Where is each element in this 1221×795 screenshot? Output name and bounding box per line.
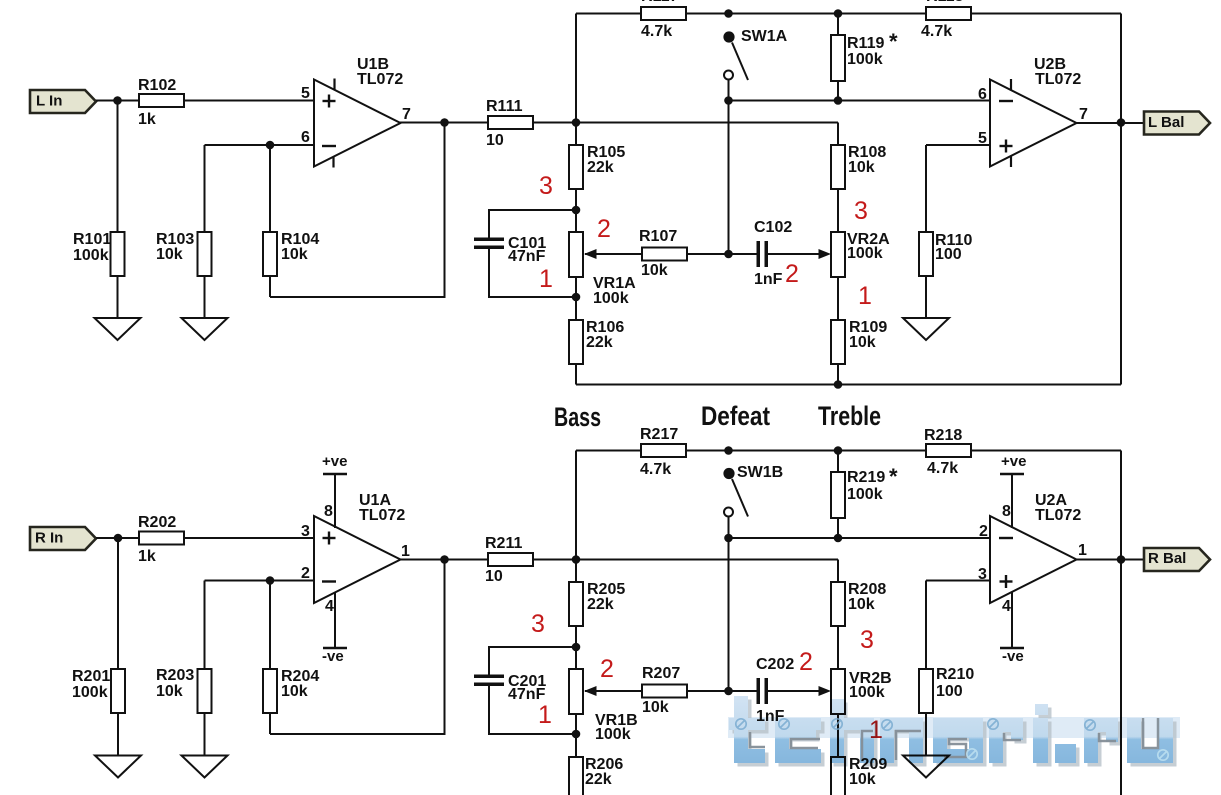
resistor R105 bbox=[569, 145, 583, 189]
svg-text:L In: L In bbox=[36, 93, 62, 110]
resistor R218 bbox=[926, 444, 971, 457]
svg-text:10k: 10k bbox=[849, 771, 876, 788]
resistor R217 bbox=[641, 444, 686, 457]
watermark marks bbox=[736, 719, 1168, 760]
resistor R102 bbox=[139, 94, 184, 107]
svg-text:100k: 100k bbox=[593, 290, 629, 307]
svg-text:1k: 1k bbox=[138, 111, 156, 128]
svg-text:3: 3 bbox=[301, 523, 310, 540]
node L Bal bbox=[1117, 118, 1126, 127]
resistor R103 bbox=[204, 145, 206, 318]
svg-text:R In: R In bbox=[35, 530, 63, 547]
svg-text:*: * bbox=[889, 29, 898, 54]
wire left tone rail bbox=[575, 14, 577, 385]
svg-text:2: 2 bbox=[979, 523, 988, 540]
svg-text:1: 1 bbox=[539, 265, 553, 293]
resistor R208 bbox=[831, 582, 845, 626]
svg-text:R203: R203 bbox=[156, 667, 194, 684]
switch SW1B bbox=[723, 468, 734, 479]
svg-text:TL072: TL072 bbox=[359, 507, 405, 524]
wire U2A pin 3 bbox=[926, 580, 990, 582]
node SW1B bottom bbox=[724, 534, 733, 543]
node R219 top bbox=[834, 446, 843, 455]
svg-text:22k: 22k bbox=[587, 596, 614, 613]
svg-text:2: 2 bbox=[597, 215, 611, 243]
svg-text:R218: R218 bbox=[924, 427, 962, 444]
svg-text:R219: R219 bbox=[847, 469, 885, 486]
svg-text:R202: R202 bbox=[138, 514, 176, 531]
resistor R119 bbox=[837, 14, 839, 101]
node bottom rail treble bbox=[834, 380, 843, 389]
node bass bottom R bbox=[572, 730, 581, 739]
resistor R203 bbox=[204, 581, 206, 756]
svg-text:10k: 10k bbox=[848, 596, 875, 613]
resistor R210 bbox=[925, 581, 927, 756]
svg-text:8: 8 bbox=[1002, 503, 1011, 520]
svg-text:4: 4 bbox=[1002, 598, 1011, 615]
wire main rail R bbox=[576, 559, 838, 561]
wire U2A output bbox=[1077, 559, 1145, 561]
wire feedback U1A bbox=[270, 560, 445, 735]
resistor R219 bbox=[837, 451, 839, 539]
svg-text:2: 2 bbox=[785, 260, 799, 288]
resistor R207 bbox=[642, 685, 687, 698]
svg-text:10k: 10k bbox=[281, 683, 308, 700]
svg-text:10k: 10k bbox=[281, 246, 308, 263]
wire U1A output bbox=[400, 559, 576, 561]
svg-text:SW1B: SW1B bbox=[737, 464, 783, 481]
svg-text:R102: R102 bbox=[138, 77, 176, 94]
switch SW1A bbox=[723, 31, 734, 42]
svg-text:R107: R107 bbox=[639, 228, 677, 245]
node pin6 junction bbox=[266, 141, 275, 150]
svg-text:4.7k: 4.7k bbox=[927, 460, 958, 477]
wire U1A pin 8 +ve bbox=[334, 474, 336, 528]
resistor R111 bbox=[488, 116, 533, 129]
resistor R205 bbox=[569, 582, 583, 626]
op-amp U1B bbox=[314, 80, 401, 167]
resistor R206 bbox=[569, 757, 583, 795]
svg-text:TL072: TL072 bbox=[1035, 71, 1081, 88]
wire left tone rail R bbox=[575, 451, 577, 795]
svg-text:1nF: 1nF bbox=[754, 271, 783, 288]
port R In bbox=[30, 527, 96, 550]
svg-text:R207: R207 bbox=[642, 665, 680, 682]
svg-text:Treble: Treble bbox=[818, 401, 881, 431]
svg-text:100k: 100k bbox=[72, 684, 108, 701]
svg-text:100k: 100k bbox=[73, 247, 109, 264]
capacitor C201 bbox=[489, 647, 576, 676]
pot VR2B bbox=[831, 669, 845, 714]
svg-text:R210: R210 bbox=[936, 666, 974, 683]
svg-text:R211: R211 bbox=[485, 535, 522, 552]
svg-text:-ve: -ve bbox=[1002, 648, 1024, 665]
node tone input bbox=[572, 118, 581, 127]
svg-text:10k: 10k bbox=[156, 246, 183, 263]
wire U2A pin 4 -ve bbox=[1011, 592, 1013, 648]
port R Bal bbox=[1144, 548, 1210, 571]
svg-text:3: 3 bbox=[539, 172, 553, 200]
resistor R211 bbox=[488, 553, 533, 566]
svg-text:22k: 22k bbox=[586, 334, 613, 351]
svg-text:C202: C202 bbox=[756, 656, 794, 673]
node R Bal bbox=[1117, 555, 1126, 564]
svg-text:7: 7 bbox=[402, 106, 411, 123]
node U1B output bbox=[440, 118, 449, 127]
wire defeat vertical bbox=[728, 101, 730, 255]
svg-text:3: 3 bbox=[860, 626, 874, 654]
svg-text:4.7k: 4.7k bbox=[640, 461, 671, 478]
svg-text:L Bal: L Bal bbox=[1148, 114, 1184, 131]
op-amp U2B bbox=[990, 80, 1077, 167]
node defeat mid bbox=[724, 250, 733, 259]
wire VR1B wiper bbox=[585, 690, 729, 692]
ground R210 bbox=[903, 756, 949, 778]
resistor R101 bbox=[117, 101, 119, 319]
node R In junction bbox=[114, 534, 123, 543]
svg-text:+ve: +ve bbox=[322, 453, 347, 470]
wire VR1A wiper bbox=[585, 253, 729, 255]
resistor R106 bbox=[569, 320, 583, 364]
wire feedback U1B bbox=[270, 123, 445, 298]
svg-text:C102: C102 bbox=[754, 219, 792, 236]
wire U1B output bbox=[400, 122, 576, 124]
svg-text:3: 3 bbox=[854, 197, 868, 225]
node SW1B top bbox=[724, 446, 733, 455]
svg-text:1: 1 bbox=[858, 282, 872, 310]
pot VR1A bbox=[569, 232, 583, 277]
resistor R118 bbox=[926, 7, 971, 20]
svg-text:100k: 100k bbox=[847, 245, 883, 262]
svg-text:-ve: -ve bbox=[322, 648, 344, 665]
node L In junction bbox=[113, 96, 122, 105]
svg-text:47nF: 47nF bbox=[508, 248, 546, 265]
svg-text:TL072: TL072 bbox=[357, 71, 403, 88]
svg-text:100: 100 bbox=[935, 246, 962, 263]
resistor R110 bbox=[925, 145, 927, 318]
svg-text:Defeat: Defeat bbox=[701, 401, 770, 431]
resistor R209 bbox=[831, 757, 845, 795]
op-amp U2A bbox=[990, 516, 1077, 603]
svg-text:10k: 10k bbox=[641, 262, 668, 279]
op-amp U1A bbox=[314, 516, 401, 603]
svg-text:R111: R111 bbox=[486, 98, 523, 115]
resistor R109 bbox=[831, 320, 845, 364]
svg-text:22k: 22k bbox=[585, 771, 612, 788]
svg-text:R118: R118 bbox=[926, 0, 963, 5]
node bass top R bbox=[572, 643, 581, 652]
svg-text:R Bal: R Bal bbox=[1148, 550, 1186, 567]
svg-text:+ve: +ve bbox=[1001, 453, 1026, 470]
wire defeat to U2A pin 2 bbox=[729, 537, 991, 539]
node defeat mid R bbox=[724, 687, 733, 696]
capacitor C101 bbox=[489, 210, 576, 239]
svg-text:10: 10 bbox=[486, 132, 504, 149]
svg-text:4.7k: 4.7k bbox=[641, 23, 672, 40]
svg-text:10k: 10k bbox=[156, 683, 183, 700]
wire L In to U1B pin 5 bbox=[96, 100, 314, 102]
svg-text:1: 1 bbox=[1078, 542, 1087, 559]
ground R101 bbox=[95, 318, 141, 340]
ground R103 bbox=[182, 318, 228, 340]
node U1A output bbox=[440, 555, 449, 564]
svg-text:6: 6 bbox=[301, 129, 310, 146]
svg-text:6: 6 bbox=[978, 86, 987, 103]
resistor R201 bbox=[117, 538, 119, 756]
svg-text:TL072: TL072 bbox=[1035, 507, 1081, 524]
svg-text:100k: 100k bbox=[849, 684, 885, 701]
svg-text:R101: R101 bbox=[73, 231, 111, 248]
pot VR2A bbox=[831, 232, 845, 277]
svg-text:R217: R217 bbox=[640, 426, 678, 443]
resistor R204 bbox=[269, 581, 271, 735]
resistor R117 bbox=[641, 7, 686, 20]
wire R In to U1A pin 3 bbox=[96, 537, 314, 539]
svg-text:*: * bbox=[889, 464, 898, 489]
wire output rail right R bbox=[1120, 451, 1122, 795]
svg-text:10k: 10k bbox=[849, 334, 876, 351]
wire main rail to treble bbox=[576, 122, 838, 124]
svg-text:100k: 100k bbox=[847, 51, 883, 68]
wire U2B output bbox=[1077, 122, 1145, 124]
wire U1A pin 4 -ve bbox=[334, 592, 336, 648]
node R119 top bbox=[834, 9, 843, 18]
svg-text:1: 1 bbox=[538, 701, 552, 729]
resistor R108 bbox=[831, 145, 845, 189]
svg-text:100k: 100k bbox=[847, 486, 883, 503]
svg-text:7: 7 bbox=[1079, 106, 1088, 123]
node tone input R bbox=[572, 555, 581, 564]
svg-text:8: 8 bbox=[324, 503, 333, 520]
svg-text:10: 10 bbox=[485, 568, 503, 585]
node R219 bottom bbox=[834, 534, 843, 543]
svg-text:100k: 100k bbox=[595, 726, 631, 743]
resistor R202 bbox=[139, 532, 184, 545]
svg-text:1: 1 bbox=[401, 543, 410, 560]
svg-text:R117: R117 bbox=[641, 0, 678, 5]
node pin2 junction bbox=[266, 576, 275, 585]
svg-text:4: 4 bbox=[325, 598, 334, 615]
wire top rail bbox=[576, 13, 1121, 15]
wire output rail right bbox=[1120, 14, 1122, 385]
wire defeat to U2B pin 6 bbox=[729, 100, 991, 102]
svg-text:3: 3 bbox=[531, 610, 545, 638]
port L In bbox=[30, 90, 96, 113]
svg-text:10k: 10k bbox=[642, 699, 669, 716]
ground R110 bbox=[903, 318, 949, 340]
watermark tehnari.ru bbox=[728, 696, 1180, 767]
wire right tone rail R bbox=[837, 560, 839, 795]
node bass top bbox=[572, 206, 581, 215]
svg-text:Bass: Bass bbox=[554, 402, 601, 432]
pot VR1B bbox=[569, 669, 583, 714]
svg-text:2: 2 bbox=[799, 648, 813, 676]
node SW1A top bbox=[724, 9, 733, 18]
wire U1A pin 2 bbox=[205, 580, 315, 582]
node bass bottom bbox=[572, 293, 581, 302]
node R119 bottom bbox=[834, 96, 843, 105]
wire U2A pin 8 +ve bbox=[1011, 474, 1013, 528]
resistor R104 bbox=[269, 145, 271, 297]
svg-text:R119: R119 bbox=[847, 35, 884, 52]
svg-text:2: 2 bbox=[600, 655, 614, 683]
svg-text:2: 2 bbox=[301, 565, 310, 582]
port L Bal bbox=[1144, 112, 1210, 135]
svg-text:5: 5 bbox=[301, 85, 310, 102]
capacitor C202 bbox=[729, 690, 757, 692]
ground R201 bbox=[95, 756, 141, 778]
wire top rail R bbox=[576, 450, 1121, 452]
node SW1A bottom bbox=[724, 96, 733, 105]
ground R203 bbox=[182, 756, 228, 778]
svg-text:10k: 10k bbox=[848, 159, 875, 176]
resistor R107 bbox=[642, 248, 687, 261]
svg-text:1k: 1k bbox=[138, 548, 156, 565]
capacitor C102 bbox=[729, 253, 757, 255]
wire defeat vertical R bbox=[728, 538, 730, 691]
wire right tone rail bbox=[837, 123, 839, 385]
svg-text:R201: R201 bbox=[72, 668, 110, 685]
svg-text:100: 100 bbox=[936, 683, 963, 700]
svg-text:4.7k: 4.7k bbox=[921, 23, 952, 40]
svg-text:SW1A: SW1A bbox=[741, 28, 788, 45]
wire U2B pin 5 bbox=[926, 144, 990, 146]
wire U1B pin 6 bbox=[205, 144, 315, 146]
wire bottom rail bbox=[576, 384, 1121, 386]
svg-text:22k: 22k bbox=[587, 159, 614, 176]
